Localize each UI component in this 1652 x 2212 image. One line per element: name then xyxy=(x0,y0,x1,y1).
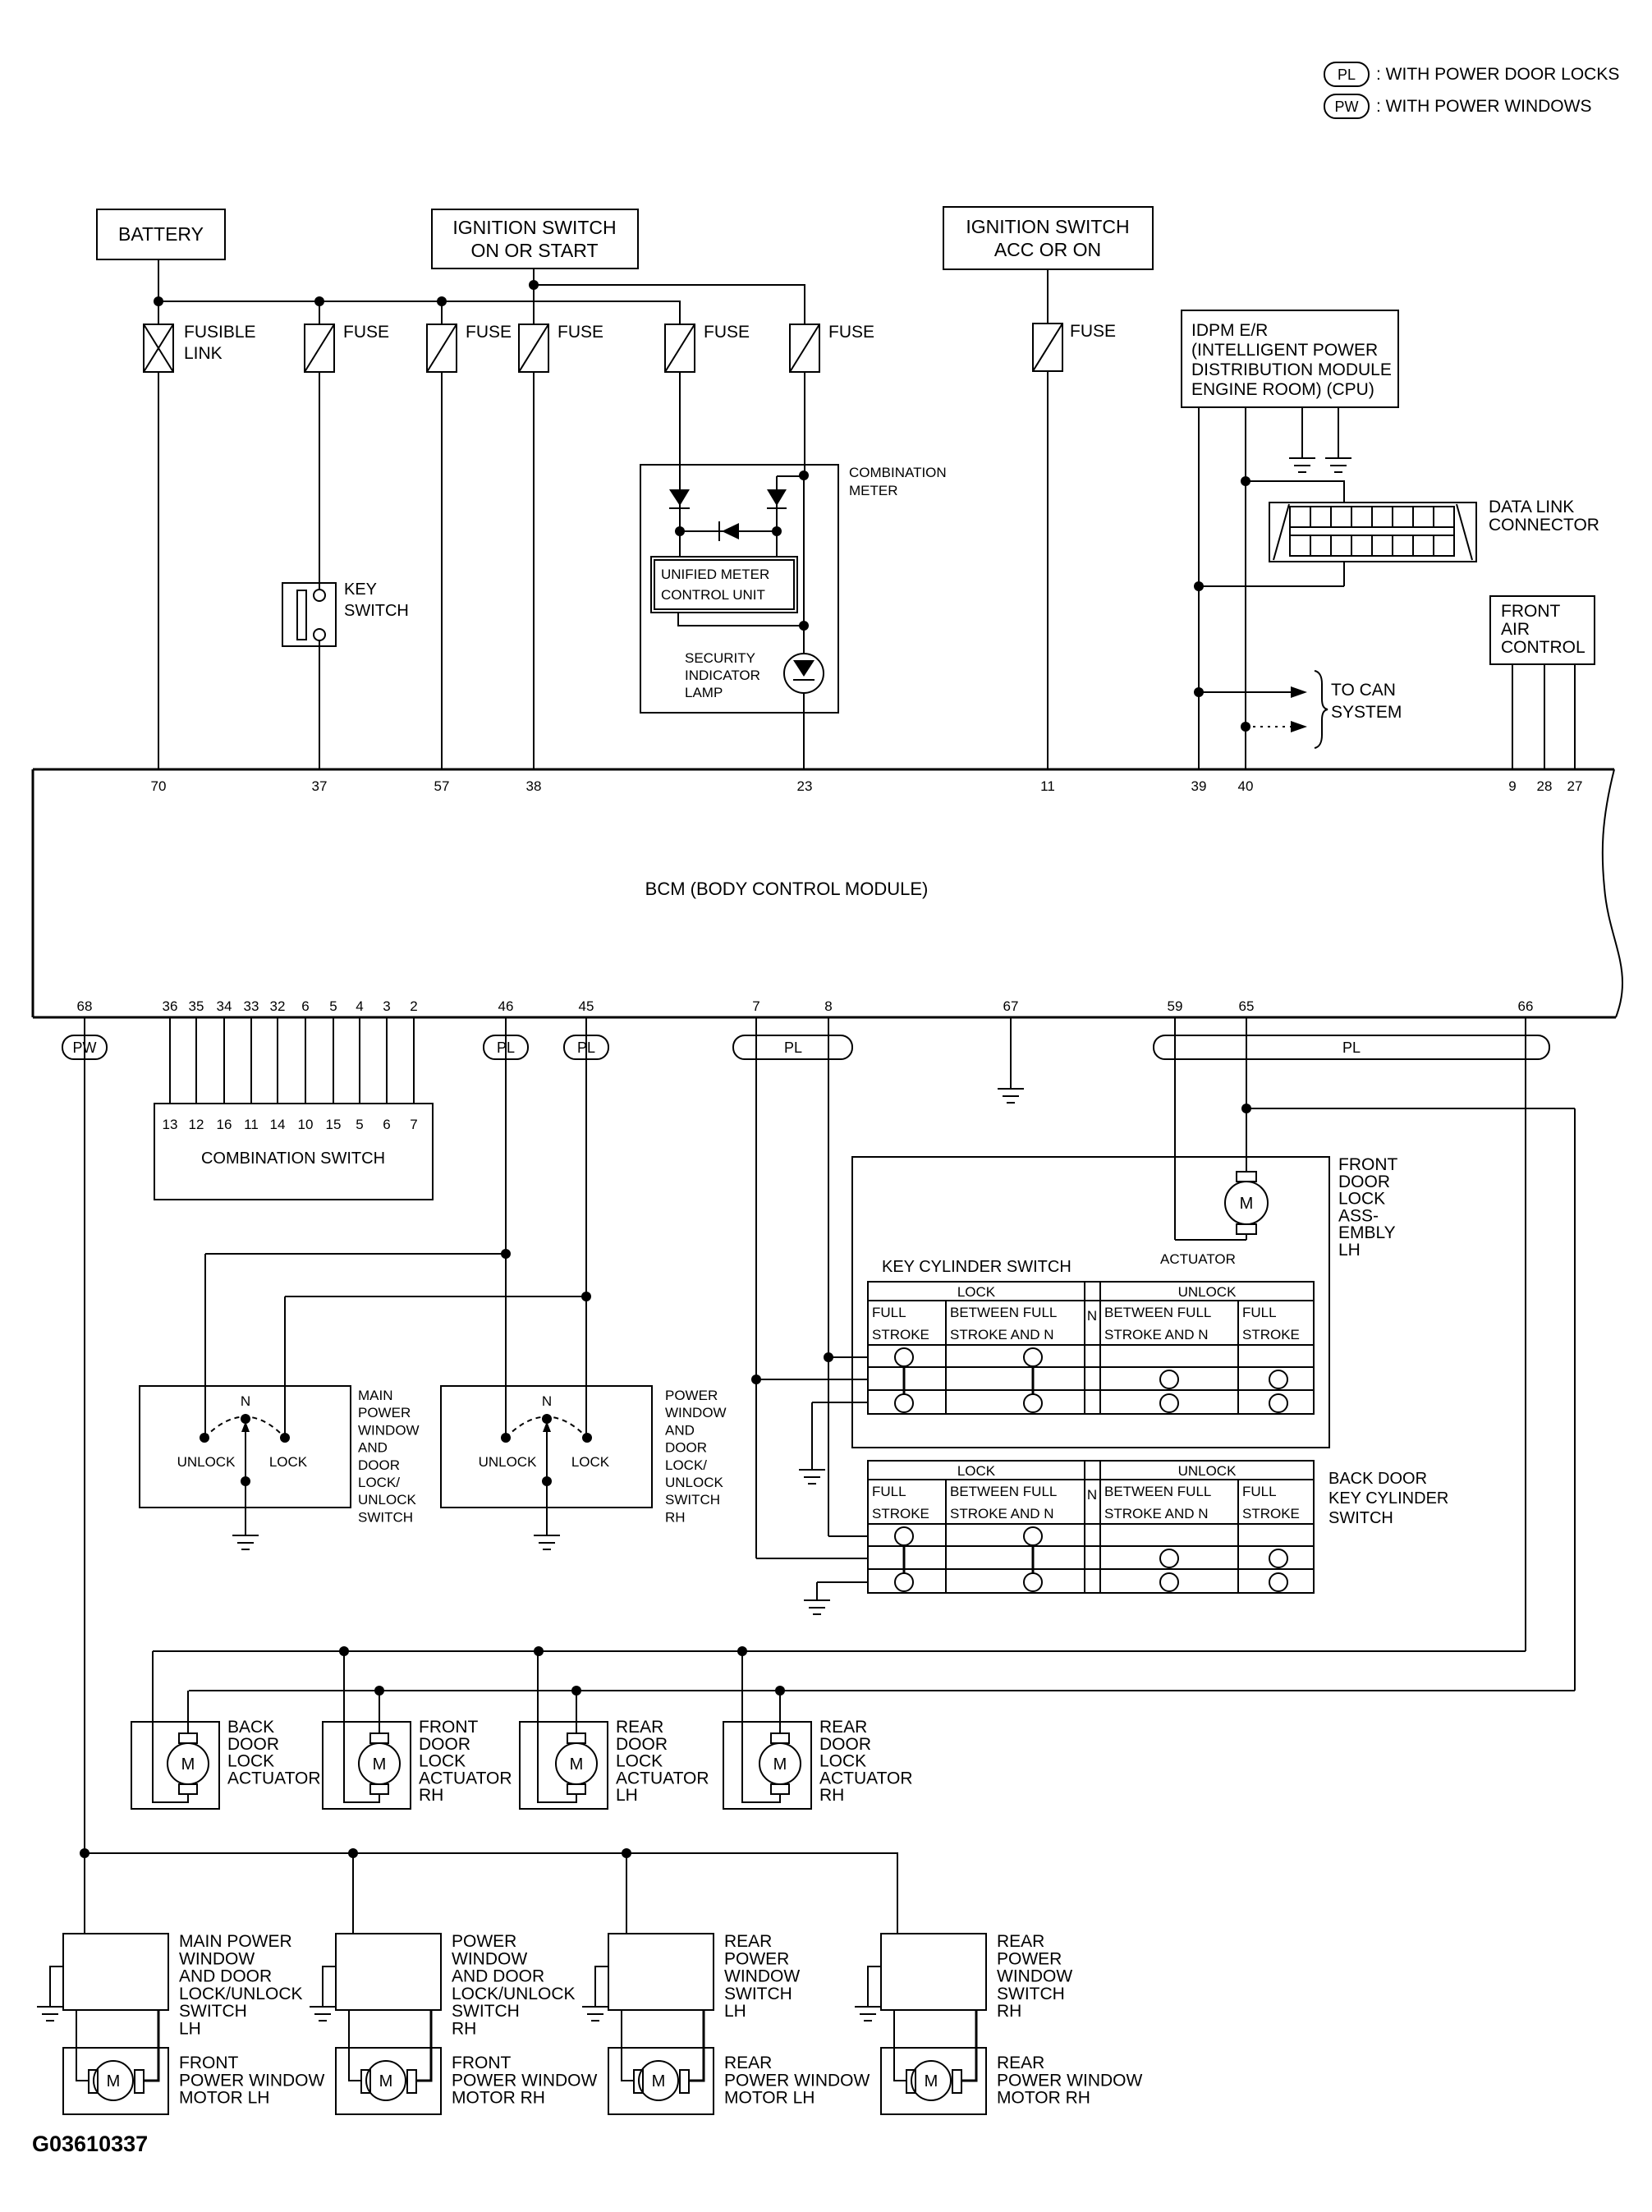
svg-text:FUSE: FUSE xyxy=(343,323,389,342)
svg-text:MOTOR RH: MOTOR RH xyxy=(452,2089,545,2108)
svg-text:POWER: POWER xyxy=(358,1405,411,1420)
svg-text:UNLOCK: UNLOCK xyxy=(358,1492,417,1508)
svg-text:40: 40 xyxy=(1238,778,1254,794)
svg-text:LOCK: LOCK xyxy=(1338,1190,1385,1209)
svg-text:ENGINE ROOM) (CPU): ENGINE ROOM) (CPU) xyxy=(1191,380,1374,399)
svg-text:9: 9 xyxy=(1508,778,1516,794)
svg-text:10: 10 xyxy=(298,1117,314,1132)
svg-text:DISTRIBUTION MODULE: DISTRIBUTION MODULE xyxy=(1191,360,1392,379)
svg-text:AND: AND xyxy=(665,1422,695,1438)
svg-text:70: 70 xyxy=(151,778,167,794)
svg-text:AIR: AIR xyxy=(1501,620,1530,639)
svg-text:POWER: POWER xyxy=(724,1949,789,1968)
svg-text:PW: PW xyxy=(1335,99,1359,115)
svg-text:N: N xyxy=(1087,1308,1097,1324)
svg-text:FRONT: FRONT xyxy=(1338,1155,1397,1174)
svg-text:FUSE: FUSE xyxy=(466,323,512,342)
svg-text:BACK: BACK xyxy=(227,1718,274,1737)
svg-text:EMBLY: EMBLY xyxy=(1338,1223,1396,1242)
svg-text:KEY CYLINDER SWITCH: KEY CYLINDER SWITCH xyxy=(882,1258,1072,1276)
svg-text:DATA LINK: DATA LINK xyxy=(1489,498,1574,516)
svg-text:STROKE: STROKE xyxy=(1242,1327,1300,1342)
svg-text:6: 6 xyxy=(383,1117,390,1132)
svg-text:CONTROL: CONTROL xyxy=(1501,638,1585,657)
svg-text:LOCK: LOCK xyxy=(227,1752,274,1771)
svg-text:LOCK: LOCK xyxy=(269,1454,308,1470)
svg-text:LOCK/: LOCK/ xyxy=(358,1475,400,1490)
svg-text:M: M xyxy=(107,2072,121,2090)
svg-text:WINDOW: WINDOW xyxy=(724,1967,800,1986)
svg-text:STROKE AND N: STROKE AND N xyxy=(950,1327,1054,1342)
svg-text:23: 23 xyxy=(797,778,813,794)
svg-text:M: M xyxy=(570,1755,584,1774)
svg-text:REAR: REAR xyxy=(997,1932,1044,1951)
svg-text:14: 14 xyxy=(270,1117,286,1132)
svg-text:RH: RH xyxy=(997,2002,1021,2021)
svg-text:UNLOCK: UNLOCK xyxy=(665,1475,724,1490)
svg-text:WINDOW: WINDOW xyxy=(997,1967,1072,1986)
svg-text:DOOR: DOOR xyxy=(665,1440,707,1456)
svg-text:FULL: FULL xyxy=(872,1305,906,1320)
svg-text:WINDOW: WINDOW xyxy=(665,1405,727,1420)
svg-text:RH: RH xyxy=(452,2020,476,2039)
svg-text:FUSE: FUSE xyxy=(828,323,874,342)
svg-text:M: M xyxy=(773,1755,787,1774)
svg-text:28: 28 xyxy=(1537,778,1553,794)
svg-text:7: 7 xyxy=(752,998,759,1014)
svg-text:SECURITY: SECURITY xyxy=(685,650,755,666)
svg-text:FUSIBLE: FUSIBLE xyxy=(184,323,256,342)
svg-text:68: 68 xyxy=(77,998,93,1014)
svg-text:FUSE: FUSE xyxy=(1070,322,1116,341)
svg-text:STROKE AND N: STROKE AND N xyxy=(1104,1506,1209,1521)
svg-text:45: 45 xyxy=(579,998,594,1014)
svg-text:38: 38 xyxy=(526,778,542,794)
svg-text:WINDOW: WINDOW xyxy=(358,1422,420,1438)
svg-text:16: 16 xyxy=(217,1117,232,1132)
svg-text:SWITCH: SWITCH xyxy=(997,1985,1065,2003)
svg-text:FULL: FULL xyxy=(872,1484,906,1499)
svg-text:LOCK: LOCK xyxy=(419,1752,466,1771)
svg-text:BCM (BODY CONTROL MODULE): BCM (BODY CONTROL MODULE) xyxy=(645,879,929,899)
svg-text:11: 11 xyxy=(1040,778,1055,794)
svg-text:DOOR: DOOR xyxy=(819,1735,871,1754)
svg-text:MOTOR LH: MOTOR LH xyxy=(179,2089,269,2108)
svg-text:7: 7 xyxy=(410,1117,417,1132)
svg-text:LOCK: LOCK xyxy=(957,1463,996,1479)
svg-text:BETWEEN FULL: BETWEEN FULL xyxy=(950,1484,1057,1499)
svg-text:LOCK: LOCK xyxy=(616,1752,663,1771)
svg-text:LH: LH xyxy=(724,2002,746,2021)
svg-text:BETWEEN FULL: BETWEEN FULL xyxy=(1104,1305,1211,1320)
svg-text:M: M xyxy=(373,1755,387,1774)
svg-text:M: M xyxy=(925,2072,938,2090)
svg-text:BETWEEN FULL: BETWEEN FULL xyxy=(1104,1484,1211,1499)
svg-text:METER: METER xyxy=(849,483,898,498)
svg-text:MAIN POWER: MAIN POWER xyxy=(179,1932,292,1951)
svg-text:15: 15 xyxy=(326,1117,342,1132)
svg-text:PW: PW xyxy=(73,1039,97,1056)
svg-text:RH: RH xyxy=(665,1509,686,1525)
svg-text:LOCK/: LOCK/ xyxy=(665,1457,707,1473)
svg-text:FUSE: FUSE xyxy=(558,323,603,342)
svg-text:FULL: FULL xyxy=(1242,1484,1277,1499)
svg-text:M: M xyxy=(1240,1195,1254,1213)
svg-text:32: 32 xyxy=(270,998,286,1014)
svg-text:LH: LH xyxy=(1338,1241,1361,1260)
svg-text:BACK DOOR: BACK DOOR xyxy=(1328,1470,1427,1488)
svg-text:UNIFIED METER: UNIFIED METER xyxy=(661,567,769,582)
svg-text:POWER WINDOW: POWER WINDOW xyxy=(452,2071,597,2090)
svg-text:: WITH POWER WINDOWS: : WITH POWER WINDOWS xyxy=(1376,97,1591,116)
svg-text:5: 5 xyxy=(356,1117,363,1132)
svg-text:KEY: KEY xyxy=(344,581,377,599)
svg-text:27: 27 xyxy=(1567,778,1583,794)
svg-text:PL: PL xyxy=(577,1039,595,1056)
svg-text:UNLOCK: UNLOCK xyxy=(479,1454,538,1470)
svg-text:UNLOCK: UNLOCK xyxy=(1178,1284,1237,1300)
svg-text:PL: PL xyxy=(497,1039,515,1056)
svg-text:KEY CYLINDER: KEY CYLINDER xyxy=(1328,1489,1448,1508)
svg-text:REAR: REAR xyxy=(724,1932,772,1951)
svg-text:LOCK/UNLOCK: LOCK/UNLOCK xyxy=(452,1985,576,2003)
svg-text:STROKE: STROKE xyxy=(1242,1506,1300,1521)
svg-text:13: 13 xyxy=(163,1117,178,1132)
svg-text:AND DOOR: AND DOOR xyxy=(452,1967,544,1986)
svg-text:RH: RH xyxy=(419,1786,443,1805)
svg-text:ACTUATOR: ACTUATOR xyxy=(227,1769,321,1787)
svg-text:FUSE: FUSE xyxy=(704,323,750,342)
svg-text:ACTUATOR: ACTUATOR xyxy=(1160,1251,1236,1267)
svg-text:M: M xyxy=(379,2072,393,2090)
svg-text:CONNECTOR: CONNECTOR xyxy=(1489,516,1599,535)
svg-text:PL: PL xyxy=(1338,67,1356,83)
svg-text:LAMP: LAMP xyxy=(685,685,723,700)
svg-text:POWER: POWER xyxy=(452,1932,516,1951)
svg-text:REAR: REAR xyxy=(724,2054,772,2072)
svg-text:59: 59 xyxy=(1168,998,1183,1014)
svg-text:REAR: REAR xyxy=(616,1718,663,1737)
svg-text:DOOR: DOOR xyxy=(358,1457,400,1473)
svg-text:BATTERY: BATTERY xyxy=(118,223,204,245)
svg-text:COMBINATION: COMBINATION xyxy=(849,465,947,480)
svg-text:FULL: FULL xyxy=(1242,1305,1277,1320)
svg-text:3: 3 xyxy=(383,998,390,1014)
svg-text:N: N xyxy=(1087,1487,1097,1503)
svg-text:REAR: REAR xyxy=(819,1718,867,1737)
svg-text:ACC OR ON: ACC OR ON xyxy=(994,239,1101,260)
svg-text:11: 11 xyxy=(244,1117,259,1132)
svg-text:STROKE AND N: STROKE AND N xyxy=(1104,1327,1209,1342)
svg-text:SWITCH: SWITCH xyxy=(179,2002,247,2021)
svg-text:MOTOR LH: MOTOR LH xyxy=(724,2089,815,2108)
svg-text:8: 8 xyxy=(824,998,832,1014)
svg-text:IGNITION SWITCH: IGNITION SWITCH xyxy=(966,216,1129,237)
svg-text:AND DOOR: AND DOOR xyxy=(179,1967,272,1986)
svg-text:SWITCH: SWITCH xyxy=(665,1492,720,1508)
svg-text:SWITCH: SWITCH xyxy=(344,602,409,620)
svg-text:CONTROL UNIT: CONTROL UNIT xyxy=(661,587,765,603)
svg-text:SWITCH: SWITCH xyxy=(1328,1509,1393,1527)
svg-text:SWITCH: SWITCH xyxy=(724,1985,792,2003)
svg-text:REAR: REAR xyxy=(997,2054,1044,2072)
svg-text:65: 65 xyxy=(1239,998,1255,1014)
svg-text:IGNITION SWITCH: IGNITION SWITCH xyxy=(452,217,616,238)
svg-text:N: N xyxy=(241,1393,250,1409)
svg-text:WINDOW: WINDOW xyxy=(452,1949,527,1968)
svg-text:39: 39 xyxy=(1191,778,1207,794)
svg-text:4: 4 xyxy=(356,998,363,1014)
svg-text:5: 5 xyxy=(329,998,337,1014)
svg-text:: WITH POWER DOOR LOCKS: : WITH POWER DOOR LOCKS xyxy=(1376,65,1619,84)
svg-text:DOOR: DOOR xyxy=(616,1735,668,1754)
svg-text:POWER WINDOW: POWER WINDOW xyxy=(997,2071,1142,2090)
svg-text:POWER WINDOW: POWER WINDOW xyxy=(179,2071,324,2090)
svg-text:(INTELLIGENT POWER: (INTELLIGENT POWER xyxy=(1191,341,1378,360)
svg-text:67: 67 xyxy=(1003,998,1019,1014)
svg-text:POWER WINDOW: POWER WINDOW xyxy=(724,2071,870,2090)
svg-text:LH: LH xyxy=(179,2020,201,2039)
svg-text:INDICATOR: INDICATOR xyxy=(685,668,760,683)
svg-text:WINDOW: WINDOW xyxy=(179,1949,255,1968)
svg-text:ON OR START: ON OR START xyxy=(470,240,598,261)
svg-text:ACTUATOR: ACTUATOR xyxy=(616,1769,709,1787)
svg-text:DOOR: DOOR xyxy=(227,1735,279,1754)
svg-text:6: 6 xyxy=(301,998,309,1014)
svg-text:LINK: LINK xyxy=(184,344,223,363)
svg-text:TO CAN: TO CAN xyxy=(1331,681,1396,700)
svg-text:ACTUATOR: ACTUATOR xyxy=(419,1769,512,1787)
svg-text:COMBINATION SWITCH: COMBINATION SWITCH xyxy=(201,1150,385,1168)
svg-text:PL: PL xyxy=(1342,1039,1361,1056)
svg-text:IDPM E/R: IDPM E/R xyxy=(1191,321,1268,340)
svg-text:FRONT: FRONT xyxy=(452,2054,511,2072)
svg-text:FRONT: FRONT xyxy=(1501,602,1560,621)
svg-text:ASS-: ASS- xyxy=(1338,1206,1379,1225)
svg-text:ACTUATOR: ACTUATOR xyxy=(819,1769,913,1787)
svg-text:LH: LH xyxy=(616,1786,638,1805)
svg-text:LOCK: LOCK xyxy=(819,1752,866,1771)
svg-text:M: M xyxy=(181,1755,195,1774)
svg-text:SWITCH: SWITCH xyxy=(452,2002,520,2021)
svg-text:MOTOR RH: MOTOR RH xyxy=(997,2089,1090,2108)
svg-text:SWITCH: SWITCH xyxy=(358,1509,413,1525)
svg-text:LOCK/UNLOCK: LOCK/UNLOCK xyxy=(179,1985,303,2003)
svg-text:36: 36 xyxy=(163,998,178,1014)
svg-text:LOCK: LOCK xyxy=(957,1284,996,1300)
svg-text:POWER: POWER xyxy=(665,1388,718,1403)
svg-text:34: 34 xyxy=(217,998,232,1014)
svg-text:STROKE AND N: STROKE AND N xyxy=(950,1506,1054,1521)
svg-text:AND: AND xyxy=(358,1440,388,1456)
svg-text:FRONT: FRONT xyxy=(419,1718,478,1737)
svg-text:LOCK: LOCK xyxy=(571,1454,610,1470)
svg-text:PL: PL xyxy=(784,1039,802,1056)
svg-text:DOOR: DOOR xyxy=(1338,1173,1390,1191)
svg-text:N: N xyxy=(542,1393,552,1409)
svg-text:SYSTEM: SYSTEM xyxy=(1331,703,1402,722)
svg-text:2: 2 xyxy=(410,998,417,1014)
svg-text:STROKE: STROKE xyxy=(872,1506,929,1521)
svg-text:33: 33 xyxy=(244,998,259,1014)
svg-text:37: 37 xyxy=(312,778,328,794)
svg-text:MAIN: MAIN xyxy=(358,1388,393,1403)
svg-text:RH: RH xyxy=(819,1786,844,1805)
svg-text:UNLOCK: UNLOCK xyxy=(177,1454,236,1470)
svg-text:G03610337: G03610337 xyxy=(32,2132,148,2156)
svg-text:UNLOCK: UNLOCK xyxy=(1178,1463,1237,1479)
svg-text:66: 66 xyxy=(1518,998,1534,1014)
svg-text:DOOR: DOOR xyxy=(419,1735,470,1754)
svg-text:FRONT: FRONT xyxy=(179,2054,238,2072)
svg-text:POWER: POWER xyxy=(997,1949,1062,1968)
svg-text:STROKE: STROKE xyxy=(872,1327,929,1342)
svg-text:M: M xyxy=(652,2072,666,2090)
svg-text:46: 46 xyxy=(498,998,514,1014)
svg-text:12: 12 xyxy=(189,1117,204,1132)
svg-text:57: 57 xyxy=(434,778,450,794)
svg-text:BETWEEN FULL: BETWEEN FULL xyxy=(950,1305,1057,1320)
svg-text:35: 35 xyxy=(189,998,204,1014)
